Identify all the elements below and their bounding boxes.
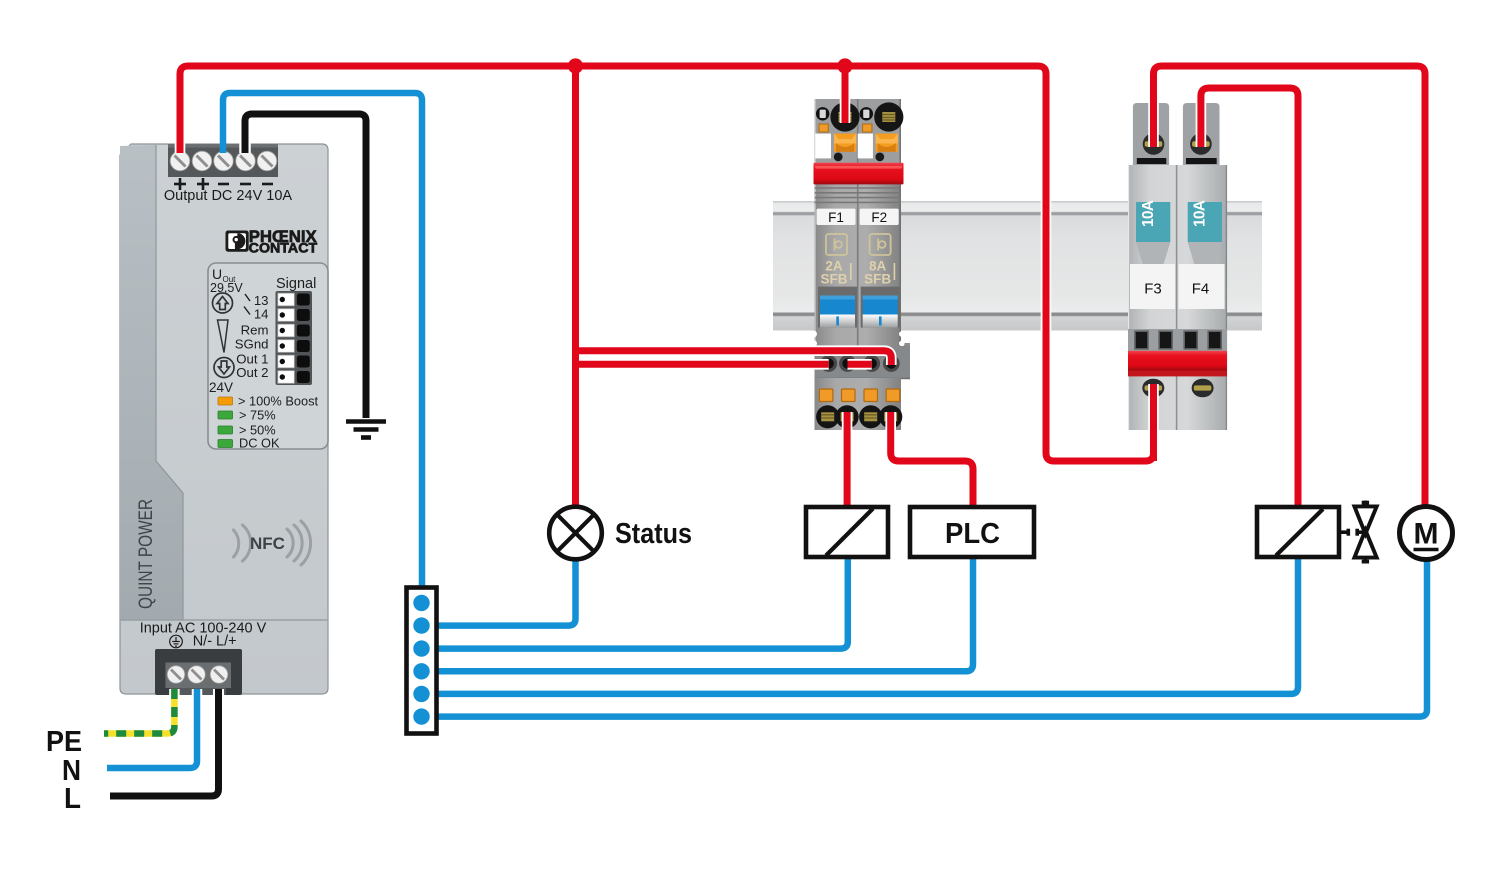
label 2A SFB <box>821 259 848 287</box>
svg-text:Status: Status <box>615 518 692 550</box>
F2 switch <box>861 287 900 328</box>
F1F2 socket zone <box>815 346 911 378</box>
F3F4 windows <box>1135 331 1221 349</box>
F3F4 window zone <box>1128 329 1227 351</box>
F1 bottom terminal 1 <box>816 405 839 428</box>
F1 bottom terminal 2 <box>836 405 859 428</box>
wire blue PSU minus to bus terminal 1 <box>223 93 422 603</box>
F1F2 red busbar band <box>814 163 904 185</box>
bus terminal node 3 <box>413 640 429 656</box>
F4 top screw <box>1190 133 1212 155</box>
svg-text:F3: F3 <box>1144 281 1162 298</box>
F1 small orange square <box>819 124 828 132</box>
input terminal block X2 <box>155 649 242 695</box>
bus terminal node 6 <box>413 708 429 724</box>
svg-text:DC OK: DC OK <box>239 436 280 451</box>
wire red bridge socket2 socket3 <box>848 361 872 368</box>
power supply U1 left dark strip <box>120 145 183 620</box>
F1 top screw terminal <box>830 102 859 131</box>
signal contact ticks <box>244 294 250 315</box>
F2 top screw terminal <box>874 102 903 131</box>
F2 white window <box>858 134 873 159</box>
bus terminal node 1 <box>413 595 429 611</box>
output terminal block X1 <box>168 144 278 177</box>
LED legend <box>218 394 318 451</box>
socket 3 <box>863 355 880 372</box>
output terminal screws <box>170 151 277 171</box>
Phoenix Contact logo <box>226 227 318 257</box>
ground symbol <box>346 422 386 438</box>
svg-text:U: U <box>212 266 222 282</box>
F2 clamp pin <box>875 153 884 162</box>
wire red F2 out to PLC <box>891 412 973 506</box>
F2 small orange square <box>863 124 872 132</box>
wire red drop to status lamp <box>572 66 579 508</box>
svg-text:NFC: NFC <box>250 534 285 553</box>
F1 switch <box>818 287 857 328</box>
bus terminal node 2 <box>413 617 429 633</box>
input PE symbol <box>170 635 183 648</box>
signal pin labels 13 14 Rem SGnd Out1 Out2 <box>235 293 269 380</box>
F3 bottom screw <box>1142 379 1164 398</box>
svg-text:> 100% Boost: > 100% Boost <box>238 394 318 409</box>
lower orange squares <box>819 389 899 402</box>
valve symbol link <box>1339 529 1363 536</box>
F1F2 lower zone <box>815 378 902 430</box>
svg-text:29,5V: 29,5V <box>210 281 243 295</box>
wire black PSU minus to earth casing <box>245 114 366 418</box>
svg-text:SFB: SFB <box>864 272 891 287</box>
PLC box <box>910 507 1034 557</box>
F1 top aux hole <box>816 107 829 120</box>
fuse holder F3 F4 module body <box>1128 165 1227 430</box>
svg-text:N/- L/+: N/- L/+ <box>193 634 237 650</box>
junction node bus-F1 <box>837 58 852 73</box>
wire red 24V bus from PSU plus <box>180 66 1154 461</box>
F1F2 left scallops <box>811 331 905 394</box>
wire blue motor to bus terminal 6 <box>422 559 1427 717</box>
F3 trapezoid shade <box>1136 242 1170 265</box>
F3 label plate <box>1130 264 1175 309</box>
wire red F3 top to motor <box>1154 66 1426 507</box>
svg-text:14: 14 <box>254 307 269 322</box>
svg-text:QUINT POWER: QUINT POWER <box>136 499 157 609</box>
wire red drop to F1 top <box>842 66 849 123</box>
wire N blue casing <box>107 689 197 768</box>
F3 top tab <box>1133 103 1169 165</box>
circuit breaker F1 F2 module body <box>815 99 911 430</box>
svg-text:SFB: SFB <box>821 272 848 287</box>
F1F2 ridge lines <box>815 188 902 202</box>
F2 label plate <box>860 209 899 225</box>
wire blue lamp to bus terminal 2 <box>422 559 576 626</box>
svg-text:Signal: Signal <box>276 276 316 292</box>
F2 watermark logo <box>870 234 891 255</box>
F1 watermark logo <box>826 234 847 255</box>
F4 fuse label 10A <box>1188 200 1222 242</box>
wire L black casing <box>110 689 219 796</box>
F1 white window <box>815 134 831 159</box>
F2 bottom terminal 2 <box>879 405 902 428</box>
svg-text:PE: PE <box>46 726 82 758</box>
wire blue relay K2 to bus terminal 5 <box>422 557 1298 694</box>
relay K2 solenoid <box>1257 507 1339 557</box>
svg-text:CONTACT: CONTACT <box>249 241 318 257</box>
icon arrow up circle <box>213 293 233 313</box>
DIN rail <box>773 201 1262 331</box>
wire PE green yellow casing <box>104 689 174 734</box>
F4 top tab <box>1183 103 1220 165</box>
label 8A SFB <box>864 259 891 287</box>
svg-text:Out 2: Out 2 <box>236 365 268 380</box>
svg-text:24V: 24V <box>209 380 233 395</box>
F4 label plate <box>1179 264 1225 309</box>
wire red branch to socket 1 <box>576 361 829 368</box>
svg-text:10A: 10A <box>1192 200 1209 227</box>
socket 4 <box>883 355 900 372</box>
wire PE yellow core <box>104 689 174 734</box>
bus terminal node 5 <box>413 686 429 702</box>
power supply U1 QUINT POWER body <box>120 144 328 694</box>
F2 bottom terminal 1 <box>859 405 882 428</box>
wire red F4 top to relay K2 <box>1201 88 1298 506</box>
F1 orange clamp <box>834 134 856 152</box>
svg-text:F4: F4 <box>1192 281 1210 298</box>
F1 rating tick <box>850 263 852 280</box>
bus terminal node 4 <box>413 663 429 679</box>
F1 label plate <box>817 209 856 225</box>
F1F2 socket zone lower edge <box>815 378 911 380</box>
F2 rating tick <box>893 263 895 280</box>
valve symbol body <box>1354 506 1376 557</box>
wire blue relay K1 to bus terminal 3 <box>422 557 848 649</box>
junction node bus-lamp <box>568 58 583 73</box>
NFC mark <box>234 521 311 565</box>
motor M1 <box>1400 507 1453 560</box>
F4 bottom screw <box>1192 379 1214 398</box>
svg-text:M: M <box>1414 518 1439 551</box>
wire blue PLC to bus terminal 4 <box>422 557 973 671</box>
relay K1 <box>806 507 888 557</box>
F4 trapezoid shade <box>1188 242 1222 265</box>
F3 top screw <box>1143 133 1165 155</box>
F1 clamp pin <box>834 153 843 162</box>
output polarity labels + + - - - <box>174 178 273 190</box>
input terminal screws <box>167 666 228 684</box>
minus bus terminal block <box>407 588 437 734</box>
F2 top aux hole <box>860 107 873 120</box>
power supply U1 input section divider <box>120 619 328 621</box>
wire red branch to socket 4 <box>576 351 892 365</box>
label Uout 29,5V <box>210 266 243 295</box>
front panel <box>208 263 328 449</box>
wire L black <box>110 689 219 796</box>
valve symbol stems <box>1362 501 1369 564</box>
socket 1 <box>820 355 837 372</box>
signal connector block <box>276 291 313 385</box>
svg-text:Rem: Rem <box>241 323 269 338</box>
wire red into F3 bottom screw <box>1150 388 1157 461</box>
socket 2 <box>839 355 856 372</box>
indicator lamp Status <box>549 507 602 560</box>
svg-text:> 75%: > 75% <box>239 408 276 423</box>
icon arrow down circle <box>214 358 234 378</box>
icon wedge <box>218 320 229 353</box>
wire N blue <box>107 689 197 768</box>
svg-text:L: L <box>64 783 81 815</box>
F3F4 red band <box>1128 351 1227 377</box>
power supply U1 strip edge line <box>120 145 183 620</box>
wire PE green dashes <box>104 689 174 734</box>
svg-text:SGnd: SGnd <box>235 337 269 352</box>
svg-text:F1: F1 <box>828 210 844 225</box>
F2 orange clamp <box>876 134 898 152</box>
svg-text:Output DC 24V 10A: Output DC 24V 10A <box>164 188 292 204</box>
svg-text:10A: 10A <box>1140 200 1157 227</box>
svg-text:PLC: PLC <box>945 518 1000 550</box>
wire red F1 out to relay K1 <box>844 412 851 506</box>
F3 fuse label 10A <box>1136 200 1170 242</box>
wire black PSU minus to earth <box>245 114 366 418</box>
svg-text:F2: F2 <box>871 210 887 225</box>
wire red casings <box>180 66 1425 508</box>
